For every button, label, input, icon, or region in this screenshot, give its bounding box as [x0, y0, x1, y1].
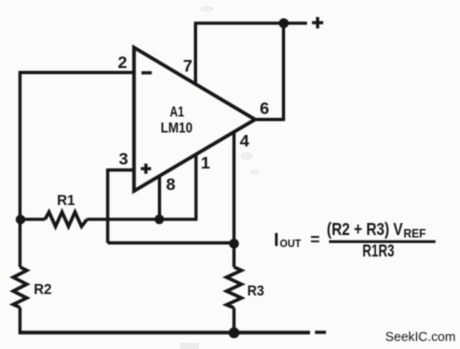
resistor R3 [227, 267, 242, 308]
wire top rail [194, 22, 307, 25]
op-amp plus input sign [141, 164, 151, 174]
node R3 top junction [229, 239, 239, 249]
svg-text:R1R3: R1R3 [362, 241, 394, 261]
resistor R2 [13, 267, 27, 308]
svg-text:6: 6 [260, 99, 269, 118]
wire R1 line [20, 218, 196, 221]
svg-text:=: = [310, 231, 320, 249]
wire stub below bottom junction [232, 333, 235, 338]
wire R3 lower [232, 308, 235, 334]
wire pin 8 vertical [158, 175, 161, 219]
svg-text:REF: REF [404, 228, 427, 240]
node output junction top [279, 18, 289, 28]
svg-text:LM10: LM10 [161, 121, 193, 137]
op-amp A1 triangle [134, 48, 255, 192]
wire left rail lower [18, 220, 21, 334]
svg-text:(R2 + R3) V: (R2 + R3) V [327, 219, 403, 239]
node pin8 junction [155, 215, 165, 225]
wire pin 1 vertical [194, 154, 197, 221]
svg-text:2: 2 [118, 53, 127, 72]
svg-text:4: 4 [240, 132, 250, 151]
decorative noise (unlabeled) [180, 343, 199, 349]
formula fraction bar [329, 240, 436, 243]
wire R3 upper [232, 244, 235, 267]
svg-text:3: 3 [119, 150, 128, 169]
node bottom junction [229, 327, 240, 338]
svg-text:A1: A1 [170, 105, 184, 121]
wire pin 4 vertical [232, 131, 235, 244]
svg-text:R2: R2 [34, 282, 52, 298]
svg-text:SeekIC.com: SeekIC.com [385, 329, 455, 344]
svg-text:I: I [274, 229, 279, 250]
resistor R1 [45, 212, 87, 227]
svg-text:7: 7 [183, 56, 192, 75]
wire output pin 6 [253, 23, 284, 121]
wire pin 7 vertical [194, 23, 197, 85]
wire left rail upper [18, 71, 21, 220]
minus terminal [315, 331, 326, 334]
svg-text:OUT: OUT [280, 238, 301, 250]
svg-text:1: 1 [201, 153, 210, 172]
node left junction [16, 215, 26, 225]
wire pin2 horizontal [19, 71, 134, 74]
svg-text:R3: R3 [247, 283, 264, 299]
svg-text:8: 8 [166, 175, 175, 194]
op-amp minus input sign [142, 71, 152, 74]
wire pin 3 bend [108, 169, 234, 243]
wire bottom rail [19, 331, 311, 335]
svg-text:R1: R1 [57, 193, 75, 209]
plus terminal [312, 17, 323, 28]
